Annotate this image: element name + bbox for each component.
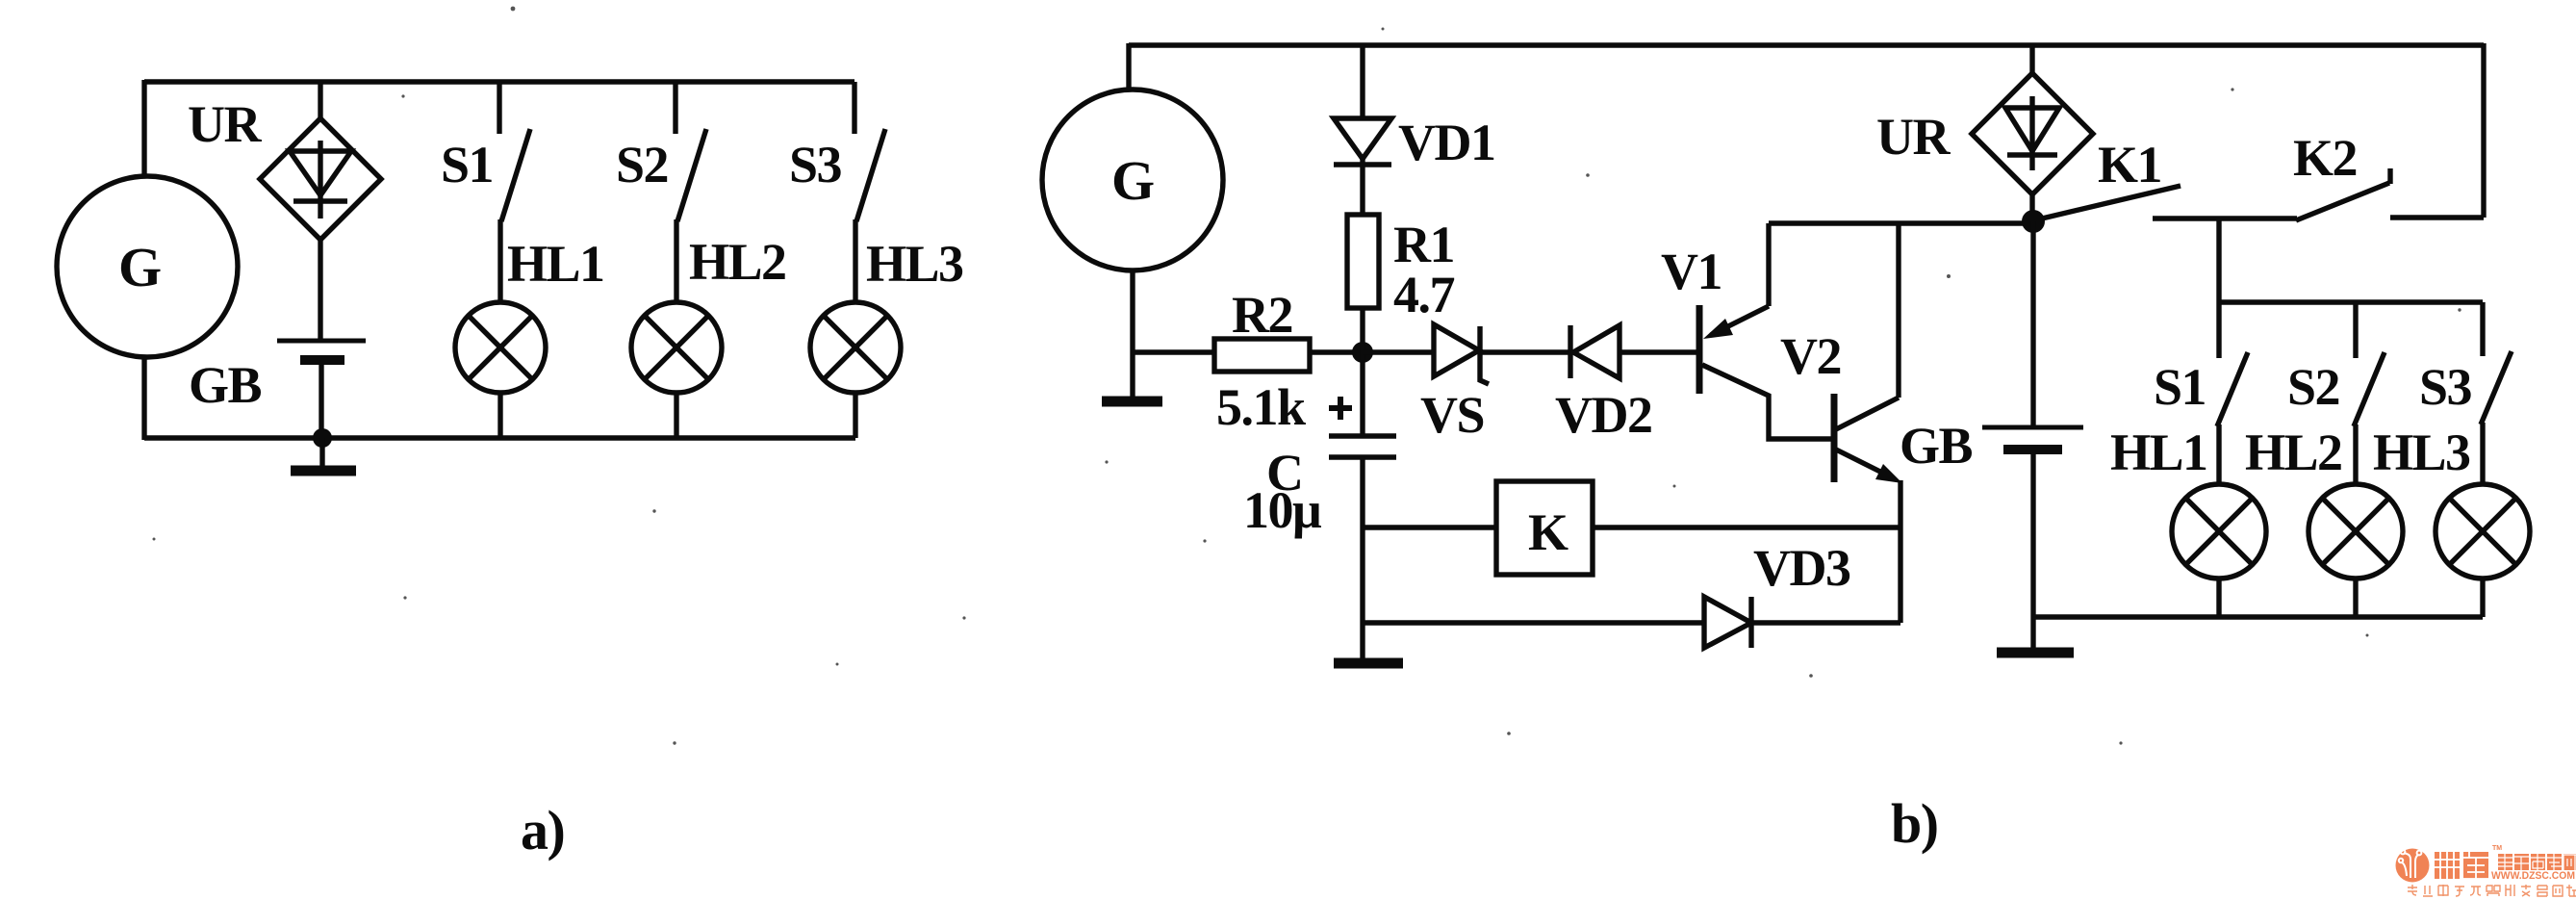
switch S3 (b) — [2481, 351, 2512, 424]
wire node to VS — [1363, 349, 1434, 354]
wire battery to ground b — [2030, 450, 2035, 648]
svg-text:S3: S3 — [789, 136, 842, 193]
diode VD1 — [1334, 118, 1391, 165]
wire node to C — [1360, 352, 1365, 434]
wire V1 collector riser — [1766, 223, 1771, 306]
zener diode VS — [1434, 324, 1489, 384]
svg-text:S1: S1 — [2154, 358, 2206, 416]
switch S2 (b) — [2354, 352, 2385, 426]
svg-text:UR: UR — [188, 95, 262, 153]
wire battery to node a — [319, 364, 323, 438]
wire R2 to node — [1310, 349, 1363, 354]
svg-text:HL2: HL2 — [2245, 424, 2342, 481]
wire right vertical b — [2481, 43, 2486, 218]
svg-text:V2: V2 — [1780, 327, 1841, 385]
wire S2 drop b — [2353, 302, 2358, 358]
svg-text:R2: R2 — [1232, 286, 1292, 344]
lamp HL3 (b) — [2436, 484, 2530, 579]
watermark text 维库 — [2435, 852, 2488, 879]
wire UR to battery a — [318, 238, 322, 340]
wire VS to VD2 — [1480, 349, 1570, 354]
wire VD1 to R1 — [1360, 159, 1365, 215]
wire S2 to HL2 — [674, 219, 678, 304]
svg-text:GB: GB — [189, 356, 262, 414]
wire bottom rail b — [2033, 614, 2483, 619]
svg-text:WWW.DZSC.COM: WWW.DZSC.COM — [2491, 870, 2575, 882]
wire top rail b — [1129, 42, 2484, 47]
wire G bottom lead b — [1130, 270, 1135, 397]
resistor R1 — [1347, 215, 1379, 308]
watermark text 专业电子元器件交易网站 — [2408, 885, 2576, 896]
wire UR top lead b — [2029, 45, 2034, 75]
wire top rail a — [144, 79, 854, 84]
svg-text:S1: S1 — [441, 136, 493, 193]
switch S2 (a) — [676, 82, 706, 221]
wire S1 to HL1 (b) — [2216, 424, 2221, 485]
wire bottom rail a — [144, 435, 855, 440]
wire HL2 to rail — [674, 393, 678, 438]
wire C to ground — [1360, 457, 1365, 658]
wire lamp rail b — [2219, 299, 2483, 304]
svg-text:HL3: HL3 — [2373, 424, 2470, 481]
svg-text:GB: GB — [1900, 417, 1973, 475]
svg-text:HL1: HL1 — [507, 235, 604, 293]
wire VD3 to riser — [1751, 620, 1900, 625]
transistor V2 — [1834, 394, 1902, 483]
wire S2 to HL2 (b) — [2353, 424, 2358, 485]
lamp HL2 (a) — [631, 302, 722, 393]
wire G top lead b — [1126, 43, 1131, 91]
lamp HL2 (b) — [2308, 484, 2403, 579]
switch S3 (a) — [854, 82, 885, 221]
wire C to relay K — [1363, 525, 1496, 529]
svg-text:K: K — [1528, 503, 1569, 561]
svg-text:VS: VS — [1420, 386, 1484, 444]
battery GB (a) — [277, 341, 366, 360]
wire HL1 to rail — [497, 393, 502, 438]
switch S1 (b) — [2217, 352, 2248, 426]
wire VD2 to V1 base — [1620, 349, 1696, 354]
wire S3 to HL3 — [853, 219, 857, 304]
junction node b2 — [2022, 210, 2045, 233]
wire V2 emitter riser — [1898, 480, 1902, 623]
wire S1 to HL1 — [497, 219, 502, 304]
wire K1 to K2 — [2153, 216, 2297, 220]
generator G1 — [57, 176, 238, 357]
svg-text:UR: UR — [1876, 108, 1951, 166]
junction node a — [313, 428, 332, 448]
ground under G (b) — [1102, 397, 1162, 407]
svg-text:VD1: VD1 — [1398, 114, 1495, 171]
svg-text:VD2: VD2 — [1555, 386, 1652, 444]
wire HL3 to bottom rail (b) — [2480, 579, 2485, 617]
ground under C (b) — [1334, 658, 1403, 669]
wire S3 to HL3 (b) — [2480, 423, 2485, 485]
wire R1 to node — [1360, 308, 1365, 352]
generator G2 — [1042, 90, 1223, 270]
relay coil K — [1496, 481, 1593, 575]
diode VD2 — [1570, 325, 1620, 378]
wire K to emitter riser — [1593, 525, 1900, 529]
svg-text:V1: V1 — [1661, 243, 1722, 300]
label + of C — [1329, 397, 1352, 420]
watermark logo — [2396, 845, 2576, 896]
svg-text:S2: S2 — [616, 136, 668, 193]
lamp HL1 (b) — [2172, 484, 2266, 579]
svg-text:HL1: HL1 — [2110, 424, 2207, 481]
watermark icon circle — [2396, 849, 2430, 883]
wire UR to node b2 — [2029, 194, 2034, 221]
resistor R2 — [1214, 339, 1310, 372]
svg-text:S2: S2 — [2287, 358, 2339, 416]
switch K2 — [2296, 168, 2390, 220]
ground (a) — [291, 438, 356, 471]
wire S3 drop b — [2480, 302, 2485, 356]
wire VD1 top lead — [1360, 45, 1365, 120]
wire UR top lead a — [318, 82, 322, 120]
svg-text:a): a) — [521, 799, 564, 861]
watermark text 电子市场网 — [2498, 854, 2576, 870]
diode VD3 — [1704, 597, 1751, 648]
wire V2 collector riser — [1896, 223, 1900, 398]
svg-text:K2: K2 — [2293, 129, 2357, 187]
wire HL3 to rail — [853, 393, 857, 438]
junction node b1 — [1352, 342, 1373, 363]
svg-text:10μ: 10μ — [1243, 481, 1321, 539]
svg-text:G: G — [118, 236, 161, 298]
svg-text:b): b) — [1891, 792, 1938, 855]
wire G to R2 — [1133, 349, 1214, 354]
switch K1 — [2042, 186, 2181, 219]
wire S1 drop b — [2216, 219, 2221, 358]
wire node to battery b — [2030, 221, 2035, 427]
ground under battery (b) — [1997, 648, 2074, 658]
capacitor C — [1329, 436, 1396, 457]
lamp HL3 (a) — [810, 302, 901, 393]
wire HL2 to bottom rail (b) — [2353, 579, 2358, 617]
lamp HL1 (a) — [455, 302, 546, 393]
switch S1 (a) — [499, 82, 530, 221]
svg-text:HL2: HL2 — [689, 233, 786, 291]
svg-text:K1: K1 — [2098, 136, 2161, 193]
wire K2 to right vertical — [2390, 215, 2484, 219]
svg-text:VD3: VD3 — [1753, 539, 1850, 597]
battery GB (b) — [1982, 427, 2083, 450]
wire HL1 to bottom rail (b) — [2216, 579, 2221, 617]
svg-text:S3: S3 — [2419, 358, 2472, 416]
rectifier UR (a) — [260, 118, 381, 240]
svg-text:HL3: HL3 — [866, 235, 963, 293]
rectifier UR (b) — [1972, 73, 2093, 194]
svg-text:5.1k: 5.1k — [1216, 378, 1306, 436]
svg-text:TM: TM — [2492, 845, 2502, 852]
svg-text:4.7: 4.7 — [1393, 266, 1455, 323]
svg-text:R1: R1 — [1393, 216, 1454, 273]
wire left vertical a — [141, 80, 146, 440]
transistor V1 — [1699, 305, 1831, 439]
wire collector bus y232 — [1769, 220, 2033, 225]
scan noise specks — [153, 7, 2461, 745]
wire VD3 left lead — [1363, 620, 1704, 625]
svg-text:G: G — [1111, 149, 1154, 212]
